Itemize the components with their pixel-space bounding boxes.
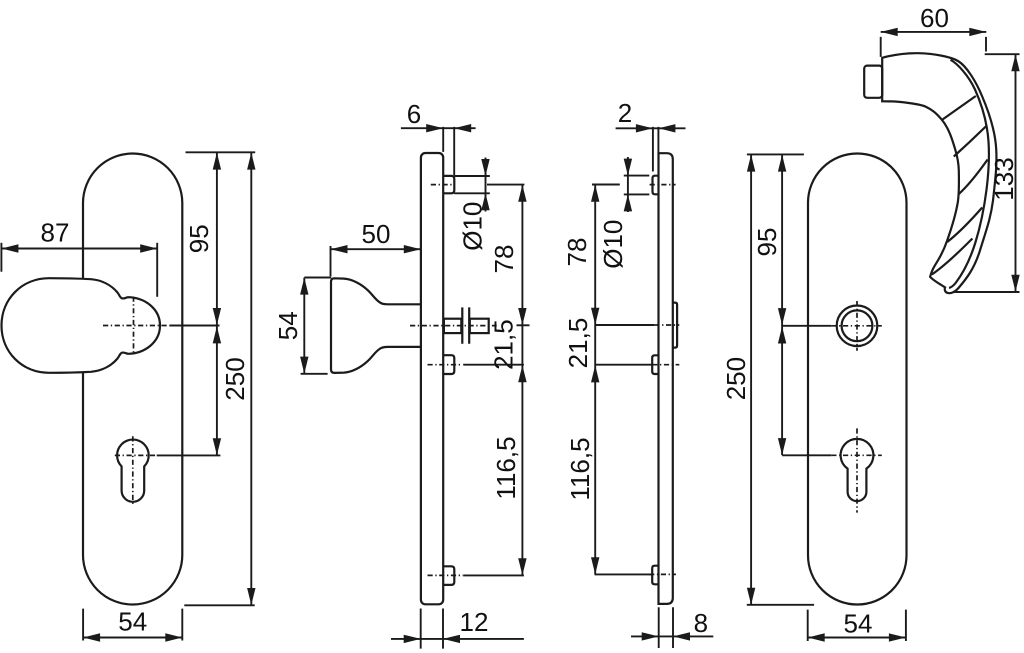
svg-text:133: 133	[989, 157, 1019, 200]
spindle guide bump right	[673, 303, 677, 348]
middle fixing boss view2	[443, 355, 454, 374]
bottom boss axis solid view3	[595, 573, 652, 575]
bottom fixing boss view2	[443, 566, 454, 585]
dim 12 ext lines	[421, 609, 443, 649]
dim 133 line	[1015, 54, 1017, 291]
dim 54 view4 ext lines	[808, 610, 906, 641]
dim 54 view2 line	[303, 278, 305, 374]
grip ridge 2	[954, 126, 987, 157]
dim 87 arrows	[1, 244, 18, 252]
dim 50 ext	[330, 246, 332, 276]
dim 60 line	[881, 31, 987, 33]
bottom boss axis extension solid	[463, 574, 524, 576]
chain dim 95 view4 line	[781, 155, 783, 456]
knob axis view3 dashed	[654, 324, 679, 326]
bottom boss axis dashed view3	[649, 573, 676, 575]
knob side profile	[331, 278, 421, 373]
dim dia10 view2 ext	[454, 176, 490, 193]
chain arrows below knob axis view4	[778, 327, 786, 344]
dim 8 arrows	[642, 632, 659, 640]
svg-text:250: 250	[721, 357, 751, 400]
dim 54 view2 arrows	[300, 278, 308, 295]
grip ridge 3	[959, 160, 988, 195]
svg-text:95: 95	[752, 228, 782, 257]
dim 21,5 view2 arrow	[518, 365, 526, 382]
dim 6 line	[401, 127, 476, 129]
dim 250 line	[250, 153, 252, 605]
plate side profile view2	[421, 153, 443, 604]
svg-text:54: 54	[118, 607, 147, 637]
spindle stub	[444, 319, 461, 333]
svg-text:8: 8	[694, 608, 708, 638]
upper boss axis	[431, 184, 455, 186]
upper boss axis extension solid	[487, 184, 524, 186]
dim 54 view1 ext lines	[83, 609, 182, 641]
handle edge band line	[949, 60, 989, 288]
svg-text:6: 6	[407, 99, 421, 129]
svg-text:60: 60	[920, 3, 949, 33]
connector knob axis to chain	[782, 325, 831, 327]
grip ridge 4	[947, 208, 982, 243]
svg-text:Ø10: Ø10	[458, 202, 488, 251]
svg-text:78: 78	[562, 238, 592, 267]
dim dia10 view3 ext	[624, 176, 650, 195]
knob axis dashed	[410, 325, 497, 327]
dim 8 ext lines	[659, 607, 673, 648]
dim 78 view2 arrows	[518, 185, 526, 202]
dim 54 view4 arrows	[808, 633, 825, 641]
svg-text:54: 54	[844, 609, 873, 639]
svg-text:116,5: 116,5	[491, 436, 521, 499]
knob centerline extension solid	[170, 325, 220, 327]
dim 78 view3 arrows	[591, 185, 599, 202]
upper boss view3	[653, 176, 659, 195]
chain dim line view3	[594, 185, 596, 575]
svg-text:12: 12	[460, 607, 489, 637]
dim 87 line	[1, 248, 157, 250]
svg-text:87: 87	[41, 218, 70, 248]
dim 2 ext lines	[653, 127, 659, 172]
dim 6 arrows	[426, 124, 443, 132]
dim 21,5 view3 arrow	[591, 365, 599, 382]
middle boss axis dashed	[428, 364, 461, 366]
top extension line view4	[747, 153, 804, 155]
keyhole centerline horizontal	[115, 454, 155, 456]
grip ridge 5	[932, 239, 973, 275]
svg-text:Ø10: Ø10	[598, 220, 628, 269]
dim 87 ext right	[156, 243, 158, 297]
chain dim line view2 (78 / 21,5 / 116,5)	[521, 185, 523, 576]
dim 60 arrows	[881, 28, 898, 36]
dim 54 view1 line	[83, 637, 182, 639]
knob centerline horizontal	[103, 325, 170, 327]
dim 6 ext lines	[443, 127, 454, 175]
dim 133 arrows	[1011, 54, 1019, 71]
dim 54 view1 arrows	[83, 633, 100, 641]
upper fixing boss view2	[443, 176, 454, 193]
knob centerline vertical	[133, 297, 135, 356]
bottom boss axis dashed	[428, 574, 464, 576]
sub-plate profile view3	[659, 153, 673, 604]
dim 8 line	[631, 635, 713, 637]
dim 250 arrows	[247, 153, 255, 170]
dim 54 view2 ext	[301, 278, 332, 374]
upper boss axis ext solid view3	[592, 184, 620, 186]
dim dia10 view2 arrows	[481, 159, 489, 176]
middle boss view3	[652, 355, 658, 374]
knob front contour	[2, 278, 161, 373]
rose disc edge lines	[462, 307, 469, 343]
dim dia10 view3 arrows	[624, 159, 632, 176]
handle neck block	[864, 66, 882, 98]
bottom extension line view1	[184, 604, 254, 606]
dim 50 arrows	[331, 245, 348, 253]
handle hole outer circle	[837, 306, 878, 347]
dim 133 ext lines	[954, 54, 1020, 292]
PZ centerline vertical	[856, 428, 858, 512]
svg-text:21,5: 21,5	[489, 319, 519, 370]
screw shank	[470, 319, 489, 333]
svg-text:95: 95	[184, 224, 214, 253]
chain segment arrows (knob axis to cylinder axis)	[213, 326, 221, 343]
dim 50 line	[331, 248, 421, 250]
dim 116,5 view2 arrow	[518, 558, 526, 575]
upper boss axis view3	[650, 184, 676, 186]
bottom extension line view4	[747, 604, 814, 606]
dim 12 arrows	[404, 635, 421, 643]
svg-text:2: 2	[618, 98, 632, 128]
handle grip outline	[882, 53, 996, 293]
grip ridge 1	[942, 96, 976, 120]
handle hole centerline horizontal	[831, 325, 882, 327]
plate outline view1	[83, 154, 182, 605]
connector PZ axis to chain	[782, 454, 831, 456]
dim dia10 view2 line	[485, 158, 487, 212]
knob axis view3 solid	[595, 324, 654, 326]
dim 60 ext lines	[881, 37, 986, 57]
dim 54 view4 line	[808, 637, 906, 639]
dim 95 / chain line	[216, 153, 218, 456]
svg-text:21,5: 21,5	[563, 318, 593, 369]
dim dia10 view3 line	[627, 157, 629, 212]
PZ keyhole view4	[841, 439, 874, 501]
dim 116,5 view3 arrow	[591, 557, 599, 574]
middle boss axis solid view3	[595, 364, 652, 366]
svg-text:54: 54	[273, 311, 303, 340]
handle hole inner circle	[842, 310, 873, 341]
middle boss axis dashed view3	[652, 364, 679, 366]
svg-text:250: 250	[220, 357, 250, 400]
svg-text:78: 78	[489, 245, 519, 274]
svg-text:50: 50	[362, 219, 391, 249]
dim 95 view4 arrows	[778, 155, 786, 172]
dim 250 view4 arrows	[747, 155, 755, 172]
bottom boss view3	[652, 566, 658, 585]
PZ centerline horizontal	[831, 454, 882, 456]
dim 87 ext left	[0, 243, 2, 272]
keyhole centerline extension solid	[157, 454, 221, 456]
dim 12 line	[391, 638, 524, 640]
top extension line view1	[186, 151, 256, 153]
keyhole centerline vertical	[132, 436, 134, 504]
plate outline view4	[808, 154, 907, 605]
PZ keyhole view1	[117, 440, 149, 502]
middle boss axis extension solid	[463, 364, 524, 366]
dim 250 view4 line	[750, 155, 752, 605]
knob axis tick at dim line	[517, 324, 530, 326]
dim 2 line	[616, 127, 686, 129]
dim 2 arrows	[636, 124, 653, 132]
handle hole centerline vertical	[856, 301, 858, 351]
svg-text:116,5: 116,5	[565, 437, 595, 500]
dim 95 arrows	[213, 153, 221, 170]
